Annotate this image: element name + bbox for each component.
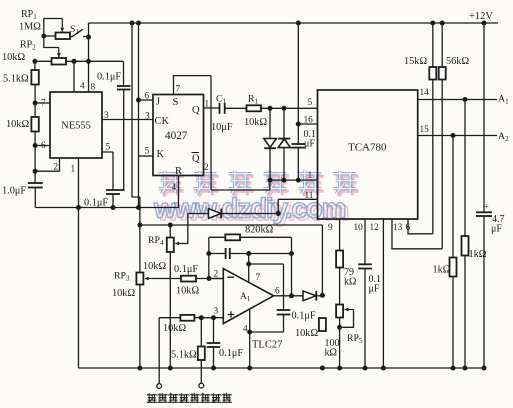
wire line B (+12V mid) [140,225,323,295]
node J junction [136,98,141,103]
wire bottom ground rail [79,367,485,369]
wire rail drop V2 (J/K) [138,23,140,208]
capacitor 0.1uF (pin16) [292,143,306,145]
svg-text:16: 16 [304,116,314,126]
watermark (decorative) [159,171,359,197]
svg-text:4: 4 [172,183,177,193]
svg-text:1kΩ: 1kΩ [433,265,451,276]
wire pin7 supply [248,254,250,283]
svg-text:4: 4 [80,82,85,92]
diode D1 (down) [269,108,271,138]
node RP2 line - pin8 junction [86,59,91,64]
node pin4-cap junction [247,330,252,335]
svg-text:6: 6 [406,223,411,233]
node RP2 left junction [32,59,37,64]
diode D3 (bias) [209,209,222,219]
capacitor 0.1uF (pin10) [358,263,372,265]
node V2-lineA junction [136,205,141,210]
svg-text:15: 15 [420,125,430,135]
node rail-V1 [130,21,135,26]
wire pin2 line [209,278,223,280]
svg-text:5: 5 [106,143,111,153]
svg-text:6: 6 [145,92,150,102]
wire pin6 TCA to 15k [408,219,433,234]
node rail A1 col [463,366,468,371]
svg-text:μF: μF [491,224,502,235]
svg-text:10kΩ: 10kΩ [143,261,166,272]
resistor 10k (pin2 input) [181,276,196,282]
diode D4 (output) [303,291,316,301]
node pin2 junction [33,169,38,174]
capacitor 4.7uF electrolytic [476,211,492,213]
svg-text:5.1kΩ: 5.1kΩ [171,350,197,361]
svg-text:+: + [484,203,489,213]
resistor 1k (A2) [452,136,454,258]
svg-text:7: 7 [41,99,46,109]
capacitor C1 10uF [219,103,221,114]
node rail RP4 col [168,366,173,371]
svg-text:μF: μF [304,139,315,150]
svg-text:3: 3 [214,307,219,317]
svg-text:0.1μF: 0.1μF [292,311,316,322]
node RP1 left-wiper junction [41,34,46,39]
op-amp A1 TLC27 [223,269,273,324]
resistor 820k feedback [209,236,226,238]
node rail pin12 col [381,366,386,371]
diode D2 (up) [283,108,285,138]
wire RP3 wiper to 10k [153,278,181,280]
wire RP4 wiper link [178,214,188,244]
wire pin11 TCA [278,199,317,213]
svg-text:Q: Q [192,105,200,116]
svg-text:0.1μF: 0.1μF [84,198,108,209]
svg-text:10kΩ: 10kΩ [2,52,25,63]
capacitor feedback [209,253,226,255]
wire NE555 pin1 to bottom rail [78,158,80,368]
node diode line - pin11 drop [276,211,281,216]
wire pin16 [298,123,317,125]
node pin3-5.1k junction [199,315,204,320]
wire +12V drop to pin16 [297,23,299,144]
svg-text:1MΩ: 1MΩ [19,22,41,33]
svg-text:9: 9 [328,223,333,233]
svg-text:10kΩ: 10kΩ [176,286,199,297]
node rail pin10 col [363,366,368,371]
node D2 bottom [282,178,287,183]
svg-text:3: 3 [104,111,109,121]
node lineB start [137,223,142,228]
node pin2 node [207,276,212,281]
node cap16 bottom [296,178,301,183]
svg-text:10kΩ: 10kΩ [6,119,29,130]
svg-text:2: 2 [54,163,59,173]
svg-text:6: 6 [41,141,46,151]
svg-text:0.1μF: 0.1μF [219,348,243,359]
svg-text:5.1kΩ: 5.1kΩ [3,74,29,85]
svg-text:56kΩ: 56kΩ [446,56,469,67]
node diode D2 top [282,106,287,111]
potentiometer RP1 1M [56,33,71,40]
wire pin14 line [418,99,497,101]
svg-text:+12V: +12V [469,11,493,22]
node rail cap col [211,366,216,371]
node rail-56k [440,21,445,26]
wire pin4 stub [73,61,75,92]
svg-text:CK: CK [155,116,170,127]
wire S1-pin8 vertical [88,23,90,92]
wire rail drop V1 (to line B / RP3) [132,23,140,225]
wire pin6 [35,145,50,147]
svg-text:kΩ: kΩ [344,277,356,288]
wire pin2 [35,158,59,171]
resistor 79k [336,251,343,268]
node rail-right column [482,21,487,26]
wire pin15 line [418,135,497,137]
svg-text:4: 4 [243,325,248,335]
wire pin10 TCA column [364,219,366,264]
node rail-15k [430,21,435,26]
svg-text:14: 14 [420,88,430,98]
svg-text:10: 10 [354,223,364,233]
node fb left cap junction [206,251,211,256]
svg-text:kΩ: kΩ [325,348,337,359]
svg-text:5: 5 [308,98,313,108]
node pin7 junction [33,101,38,106]
svg-text:10kΩ: 10kΩ [244,117,267,128]
svg-text:820kΩ: 820kΩ [245,225,274,236]
potentiometer RP2 10k [52,58,67,65]
node rail-V2 [136,21,141,26]
resistor 1k (A1) [464,100,466,237]
svg-text:TLC27: TLC27 [252,340,282,351]
node D1 bottom [268,178,273,183]
svg-text:1: 1 [71,165,76,175]
resistor 5.1k (pin3) [200,318,202,347]
wire pin7 [35,102,50,104]
right terminal [199,383,204,388]
node pin1-lineA junction [76,205,81,210]
svg-text:5: 5 [145,147,150,157]
svg-text:15kΩ: 15kΩ [404,56,427,67]
wire S loop [174,76,270,190]
node rail A2 col [451,366,456,371]
node output-bias junction [320,293,325,298]
svg-text:12: 12 [370,223,380,233]
node fb right cap junction [289,251,294,256]
node A2 junction [451,133,456,138]
node RP5 wiper join [337,325,342,330]
resistor R1 10k [247,105,262,111]
svg-text:0.1μF: 0.1μF [174,264,198,275]
wire diode line (pin11 bias) [188,213,209,215]
svg-text:TCA780: TCA780 [348,142,387,154]
capacitor 0.1uF (pins 4/8) [123,61,125,86]
node fb-output junction [289,293,294,298]
node rail pin4 col [247,366,252,371]
wire K pin [139,155,154,157]
svg-text:8: 8 [91,83,96,93]
node RP2 out - pin4 junction [72,59,77,64]
resistor 5.1k [31,70,38,85]
svg-text:3: 3 [145,112,150,122]
node diode D1 top [268,106,273,111]
wire pin3 line [159,317,180,319]
IC NE555 [50,92,102,158]
wire output line [274,295,303,297]
svg-text:J: J [156,97,160,108]
node rail-pin16 drop [296,21,301,26]
resistor 15k [432,23,434,67]
svg-text:S: S [173,97,179,108]
node A1 junction [463,97,468,102]
node rail RP3 col [137,366,142,371]
IC TCA780 [318,90,418,219]
wire pin13 TCA to 56k [392,219,442,249]
svg-text:7: 7 [256,273,261,283]
wire pin12 TCA column [382,219,384,368]
resistor 10k (output) [319,318,326,331]
switch S1 [70,36,72,38]
svg-text:10kΩ: 10kΩ [112,288,135,299]
wire +12V top rail [89,22,499,24]
capacitor 0.1uF (pin3) [213,318,215,343]
wire left column [34,61,36,70]
svg-text:2: 2 [204,163,209,173]
svg-text:0.1μF: 0.1μF [97,72,121,83]
svg-text:1: 1 [308,171,313,181]
wire ground line A [35,176,178,208]
wire J pin [139,99,154,101]
svg-text:10kΩ: 10kΩ [295,328,318,339]
resistor 56k [441,23,443,67]
node S1-rail junction [86,35,91,40]
IC 4027 [153,95,204,176]
capacitor 0.1uF (supply) [277,309,291,311]
wire pin4 opamp [249,309,251,368]
node rail 10k col [320,366,325,371]
wire Q output [204,107,220,109]
node pin3-cap junction [211,315,216,320]
wire +12V right column [483,23,485,212]
svg-text:7: 7 [176,85,181,95]
potentiometer RP4 [169,225,171,238]
caption 'connect to inverter feedback circuit' [147,393,232,403]
svg-text:R: R [175,166,182,177]
node rail right col [482,366,487,371]
resistor 10k (pins7-6) [31,117,38,132]
svg-text:13: 13 [393,223,403,233]
wire left terminal [158,318,160,384]
resistor 10k (pin3) [180,315,194,321]
svg-text:4027: 4027 [165,130,188,142]
wire pin5 of 555 [102,152,113,190]
node pin6 junction [33,143,38,148]
svg-text:NE555: NE555 [61,121,91,132]
svg-text:μF: μF [369,284,380,295]
wire pin3 to CK [102,119,153,121]
potentiometer RP3 [139,225,141,273]
svg-text:6: 6 [275,287,280,297]
wire fb right leg [291,237,293,295]
svg-text:Q: Q [192,154,200,165]
svg-text:1.0μF: 1.0μF [2,186,26,197]
node pin16 junction [296,122,301,127]
wire pin1 TCA line [270,179,318,181]
svg-text:10kΩ: 10kΩ [163,323,186,334]
node cap-lineA junction [111,205,116,210]
potentiometer RP5 [336,305,343,318]
svg-text:K: K [157,149,165,160]
svg-text:11: 11 [305,191,314,201]
capacitor 0.1uF (pin5) [106,189,125,191]
node lineB RP4 [168,223,173,228]
svg-text:10μF: 10μF [211,122,233,133]
node rail RP5 col [337,366,342,371]
capacitor 1.0uF [28,182,43,184]
wire pin9 TCA column [339,219,341,251]
